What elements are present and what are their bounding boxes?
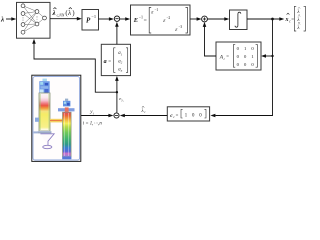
svg-text:i = 1,⋯,n: i = 1,⋯,n	[83, 122, 103, 127]
transfer pipe	[50, 119, 62, 123]
svg-text:−2: −2	[166, 16, 170, 20]
svg-text:a: a	[104, 59, 107, 65]
right column top nub	[65, 99, 68, 101]
block Ac companion matrix	[216, 42, 261, 70]
summing junction S1 (minus)	[114, 16, 119, 21]
wire feedback into cc block	[210, 114, 215, 118]
svg-text:−3: −3	[178, 25, 182, 29]
svg-text:=: =	[291, 18, 294, 23]
node error label e_yi	[119, 96, 124, 103]
plant image reactor columns	[33, 77, 80, 160]
wire lambda to NN	[6, 18, 13, 20]
wire Ac output to S2	[205, 26, 217, 57]
svg-text:λ: λ	[0, 16, 4, 24]
svg-text:=: =	[226, 55, 229, 60]
block P inverse	[82, 10, 99, 31]
svg-text:−1: −1	[139, 14, 143, 19]
summing junction S3 (minus)	[114, 113, 119, 118]
left column vessel	[39, 93, 50, 131]
svg-text:x: x	[285, 17, 289, 23]
wire gain block up to S1	[116, 25, 118, 44]
svg-text:=: =	[176, 114, 179, 119]
svg-text:=: =	[144, 18, 147, 24]
block cc output matrix	[167, 107, 209, 121]
block E inverse diagonal matrix	[131, 5, 191, 35]
wire error tap to NN bottom input	[34, 43, 117, 93]
wire NN output with label lambda-hat cNN	[50, 18, 78, 20]
block a observer gain vector	[101, 44, 130, 75]
left column cap	[43, 79, 47, 82]
plant frame block	[32, 75, 81, 161]
svg-text:i: i	[93, 111, 94, 115]
junction node after integrator	[271, 18, 274, 21]
right column cross arms	[58, 108, 75, 111]
summing junction S2 (plus)	[202, 16, 208, 22]
neural network block U1	[17, 2, 51, 38]
funnel	[40, 134, 54, 147]
svg-text:=: =	[108, 59, 111, 64]
junction node at Ac tap	[271, 55, 273, 57]
node xhat output vector label	[285, 6, 306, 31]
svg-text:−1: −1	[91, 14, 96, 19]
wire cc output to S3 with lambda-hat label	[124, 115, 168, 117]
wire E to summing junction S2	[190, 18, 198, 20]
wire yi from plant to S3	[81, 115, 110, 117]
wire S1 to E block	[120, 18, 127, 20]
right column bottom cap	[62, 157, 71, 160]
svg-text:λ: λ	[52, 9, 56, 17]
svg-text:−1: −1	[154, 8, 158, 12]
svg-text:λ: λ	[67, 9, 71, 17]
left column flange	[38, 131, 52, 134]
wire tap into Ac block	[265, 55, 273, 57]
junction node on error wire	[116, 91, 118, 93]
integrator block	[230, 10, 248, 30]
wire error e from S3 up to gain block	[116, 80, 118, 113]
wire integrator output to xhat	[247, 18, 281, 20]
wire S2 to integrator	[207, 18, 225, 20]
left side stub	[35, 118, 39, 122]
right column vessel	[63, 112, 72, 157]
svg-text:E: E	[133, 17, 138, 24]
node yi label	[89, 110, 94, 115]
wire P to summing junction S1	[99, 18, 111, 20]
svg-text:λ: λ	[141, 109, 144, 114]
svg-text:P: P	[86, 16, 91, 24]
feedback wire vertical from junction	[216, 19, 273, 116]
